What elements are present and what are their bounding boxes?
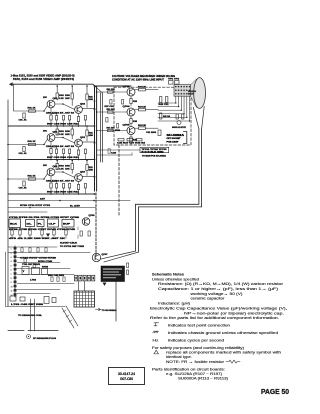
wire G bias chain [71, 126, 73, 129]
wire base feed Q705 [97, 130, 127, 132]
capacitor C31 left of label [158, 130, 161, 136]
svg-text:BLK: BLK [10, 224, 18, 226]
svg-text:R755: R755 [42, 266, 48, 268]
wire mid rail 1 [8, 125, 95, 127]
capacitor at x30 row b [29, 248, 31, 252]
svg-text:R35: R35 [133, 101, 137, 103]
wire bus into Q707 [95, 253, 98, 255]
ladder tie wires [158, 102, 190, 121]
connector label box [140, 147, 169, 152]
svg-text:DL: DL [27, 224, 33, 226]
svg-text:SU-30S2A: SU-30S2A [167, 133, 186, 137]
svg-text:CONDITION AT AC 120V 60Hz LINE: CONDITION AT AC 120V 60Hz LINE INPUT [112, 78, 164, 81]
svg-text:Q703: Q703 [123, 86, 131, 88]
svg-text:Refer to the parts list for ad: Refer to the parts list for additional c… [150, 315, 279, 320]
svg-text:TP1 TP2: TP1 TP2 [168, 79, 179, 81]
resistor at x12 sync row [11, 230, 13, 235]
resistor collector Q703 [139, 88, 146, 91]
wire left border second [5, 252, 7, 306]
resistor R211 output pullup G [86, 130, 88, 136]
svg-text:Q707: Q707 [102, 254, 109, 256]
svg-text:FL: FL [38, 224, 43, 226]
svg-text:10: 10 [11, 286, 13, 288]
wire B interstage [55, 172, 75, 178]
resistor R303 collector load B [56, 164, 58, 170]
wire verticals module row [11, 227, 13, 230]
resistor emitter Q704 [130, 119, 132, 124]
svg-text:3: 3 [11, 257, 12, 259]
wire vertical drop 1 [30, 299, 32, 331]
wire R interstage [55, 104, 75, 110]
transistor Q202 G driver [75, 139, 83, 147]
wire mid rail 2 [8, 159, 95, 161]
arrow to PCB label [96, 308, 101, 310]
wire G collector to rail [56, 126, 58, 129]
capacitor at x22 row b [21, 248, 23, 252]
capacitor spark gap a [176, 114, 178, 119]
svg-text:Q01: Q01 [53, 166, 59, 168]
resistor R59 box [52, 298, 56, 303]
transistor Q102 R driver [75, 106, 83, 114]
wire sync rail 1 [8, 200, 130, 202]
wire bottom segment 2 [28, 330, 58, 332]
pin number labels [11, 249, 13, 297]
resistor at x66 sync row [65, 230, 67, 235]
safety triangle symbol [154, 350, 159, 354]
resistor R203 collector load G [56, 129, 58, 135]
wire R output to bus [82, 108, 94, 110]
svg-text:C01 .01: C01 .01 [19, 120, 28, 122]
wire anode lead inner [139, 129, 202, 207]
wire B bias chain [71, 161, 73, 164]
wire dashed stub down [118, 145, 120, 215]
capacitor C27 bottom row [136, 139, 142, 141]
svg-text:CLP: CLP [49, 224, 57, 226]
dark module white text [103, 269, 122, 279]
twisted pair wires [62, 306, 78, 328]
svg-text:C731 R733 DL701 R735 C733 R737: C731 R733 DL701 R735 C733 R737 Q706 [9, 217, 79, 219]
transistor Q707 high voltage reg [92, 253, 100, 261]
svg-text:BUF: BUF [63, 224, 71, 226]
wire B channel bottom rail [8, 193, 95, 195]
svg-text:SU0000A (R113 ~ R9113): SU0000A (R113 ~ R9113) [178, 375, 229, 380]
capacitor C305 peaking B [69, 184, 71, 189]
svg-text:220 47/16 1K .047 10: 220 47/16 1K .047 10 [46, 111, 74, 114]
resistor R101 input series R [29, 110, 36, 112]
svg-text:Q02: Q02 [80, 137, 86, 139]
svg-text:CRT SOCKET: CRT SOCKET [167, 138, 182, 140]
svg-text:3.3K: 3.3K [59, 134, 64, 136]
ground arrow under dark block [103, 283, 107, 286]
module box buffer [62, 220, 74, 228]
svg-text:L703: L703 [30, 280, 36, 282]
resistor R207 emitter G Q01 [50, 149, 52, 154]
svg-text:150: 150 [89, 170, 93, 172]
wire R bias chain [71, 86, 73, 93]
wire dashed bus continuation [95, 193, 97, 255]
CRT socket pin block [174, 85, 191, 97]
resistor at x52 conn area [51, 277, 53, 281]
capacitor C107 extra R [84, 116, 86, 121]
svg-text:90 CRT: 90 CRT [188, 93, 195, 95]
wire base riser G [44, 140, 47, 145]
capacitor C105 peaking R [69, 116, 71, 121]
resistor R47 bottom row [127, 139, 133, 141]
svg-text:R725 C721 R727 C723: R725 C721 R727 C723 [20, 205, 50, 207]
wire into hatched block b [84, 281, 86, 291]
transistor Q703 video out [127, 88, 135, 96]
capacitor C749 right pair b [127, 270, 129, 274]
test point symbol [154, 323, 159, 326]
resistor R209 feedback G [63, 149, 65, 154]
pin ladder wires [176, 96, 190, 121]
wire bus top tie [95, 86, 103, 93]
svg-text:C31 1000: C31 1000 [146, 132, 156, 134]
resistor R103 collector load R [56, 93, 58, 99]
wire B collector to rail [56, 161, 58, 164]
wire top rail [11, 84, 131, 86]
wire bus to label box a [97, 149, 140, 151]
CRT funnel to anode lead [193, 107, 199, 129]
wire conn row 4 [17, 289, 60, 291]
svg-text:R41 C21: R41 C21 [159, 103, 170, 106]
corner bracket [184, 132, 187, 144]
capacitor C203 emitter bypass G [56, 149, 58, 154]
resistor at x20 sync row [19, 230, 21, 235]
svg-text:PCB ASSY: PCB ASSY [167, 141, 180, 144]
wire dark block drop [115, 282, 117, 322]
svg-text:R51 C41 R53: R51 C41 R53 [48, 274, 64, 277]
wire anode lead outer [136, 129, 199, 204]
svg-text:R753 C745: R753 C745 [38, 260, 52, 263]
transistor Q201 G amp [47, 134, 55, 142]
svg-text:PAGE 50: PAGE 50 [261, 387, 289, 396]
capacitor C207 extra G [84, 149, 86, 154]
wire main bus A [94, 86, 96, 191]
svg-text:R33 12K: R33 12K [138, 125, 147, 127]
wire base riser B [44, 174, 47, 179]
transistor Q706 sync [82, 218, 90, 226]
resistor at x54 sync row [53, 230, 55, 235]
svg-text:indicates test point connectio: indicates test point connection [168, 322, 230, 327]
svg-text:6: 6 [11, 270, 12, 272]
wire collector out Q705 [135, 127, 139, 129]
resistor R39 board [117, 124, 119, 129]
wire loop drop inner [138, 207, 140, 252]
svg-text:3.3K: 3.3K [59, 168, 64, 170]
wire base feed Q704 [97, 111, 127, 113]
svg-text:TO SU-30M1A: TO SU-30M1A [102, 309, 118, 312]
svg-text:8: 8 [11, 278, 12, 280]
svg-text:R739 C735 R741 C737 R743 C739: R739 C735 R741 C737 R743 C739 R745 [9, 228, 75, 231]
dark module block [101, 266, 125, 282]
svg-text:indicates cycles per second: indicates cycles per second [168, 337, 224, 342]
svg-text:H.STAT V.BLK: H.STAT V.BLK [60, 242, 78, 245]
svg-text:R07 C03 R09 C05 R11: R07 C03 R09 C05 R11 [47, 191, 80, 193]
capacitor C101 input shunt R [23, 113, 25, 118]
svg-text:3.3K: 3.3K [59, 98, 64, 100]
capacitor C33 board [106, 118, 108, 123]
transistor Q704 video out [127, 108, 135, 116]
resistor emitter Q703 [130, 99, 132, 104]
svg-text:R01 1K: R01 1K [28, 176, 37, 178]
capacitor C205 peaking G [69, 149, 71, 154]
module box filter [37, 220, 44, 227]
resistor row5 part [24, 259, 26, 263]
fusible resistor symbol [226, 360, 240, 363]
wire loop drop outer [135, 204, 137, 251]
resistor at x64 conn area [63, 277, 65, 281]
svg-text:5152, 5154 and 5156 VIDEO AMP: 5152, 5154 and 5156 VIDEO AMP (204/274) [13, 77, 74, 81]
resistor R313 emitter B Q02 [77, 185, 79, 190]
svg-text:11: 11 [11, 291, 13, 293]
ground arrow sync [46, 234, 50, 237]
transistor Q705 video out [127, 127, 135, 135]
connector pin row [75, 275, 95, 281]
svg-text:10K: 10K [65, 98, 70, 100]
svg-text:C25 R47 C27 R49 G2: C25 R47 C27 R49 G2 [117, 142, 145, 145]
wire conn row 6 [17, 262, 60, 264]
transistor Q301 B amp [47, 168, 55, 176]
capacitor at x38 row b [37, 248, 39, 252]
CRT socket pins [175, 86, 190, 95]
svg-text:5: 5 [11, 265, 12, 267]
small parts right of modules [80, 231, 82, 236]
svg-text:2: 2 [11, 253, 12, 255]
svg-text:2SC: 2SC [43, 165, 48, 167]
wire left border vertical [7, 100, 9, 306]
left pin ladder strip connector CN701 [14, 246, 17, 297]
wire row b2 [8, 252, 90, 254]
resistor R113 emitter R Q02 [77, 117, 79, 122]
resistor R305 bias upper B [71, 164, 73, 170]
svg-text:R G B BLK GND: R G B BLK GND [142, 151, 165, 153]
chassis ground symbol [153, 331, 159, 333]
capacitor C35 board [122, 100, 124, 105]
wire conn row 3 [17, 283, 74, 285]
wire bottom block rail [8, 193, 95, 195]
resistor R43 focus divider [160, 113, 162, 119]
wire G output to bus [82, 141, 94, 143]
wire bus C [100, 93, 102, 162]
svg-text:C29: C29 [111, 152, 116, 154]
wire B channel input [8, 178, 44, 180]
svg-text:L701 C45 R57 R59: L701 C45 R57 R59 [11, 303, 43, 306]
svg-text:R01 1K: R01 1K [28, 108, 37, 110]
svg-text:220 47/16 1K .047 10: 220 47/16 1K .047 10 [46, 179, 74, 182]
resistor R311 output pullup B [86, 165, 88, 171]
resistor R105 bias upper R [71, 93, 73, 99]
wire into hatched block a [78, 281, 80, 291]
svg-text:C741 R747 C743 R749: C741 R747 C743 R749 [20, 256, 56, 259]
resistor base series Q705 [108, 129, 114, 131]
wire R channel input L-run [14, 84, 45, 111]
svg-text:T: T [23, 271, 26, 273]
svg-text:A51ABx90: A51ABx90 [188, 90, 196, 93]
svg-text:2P DEGAUSS PLUG: 2P DEGAUSS PLUG [33, 337, 57, 340]
part number box [109, 368, 145, 385]
resistor at x30 sync row [29, 230, 31, 235]
module box clamp [48, 219, 59, 227]
capacitor at x46 row b [45, 248, 47, 252]
svg-text:Q705: Q705 [123, 125, 131, 127]
svg-text:R35: R35 [133, 121, 137, 123]
resistor collector Q705 [139, 127, 146, 129]
junction dots on buses [94, 85, 96, 87]
resistor R107 emitter R Q01 [50, 115, 52, 120]
transformer T701 box [22, 267, 29, 275]
wire loop diagonal to chassis a [101, 251, 136, 259]
wire collector out Q704 [135, 109, 139, 111]
CRT socket PCB dashed outline SU-30S2A [114, 87, 191, 145]
svg-text:Q02: Q02 [80, 103, 86, 105]
svg-text:Q706: Q706 [89, 215, 96, 217]
wire bus to label box b [97, 154, 132, 156]
transistor Q302 B driver [75, 174, 83, 182]
svg-text:T701 FBT DRIVE: T701 FBT DRIVE [22, 264, 41, 266]
resistor R109 feedback R [63, 116, 65, 121]
svg-text:7: 7 [11, 274, 12, 276]
resistor R57 box [44, 297, 49, 304]
wire vertical drop 2 [34, 299, 36, 331]
box part b [32, 268, 40, 275]
capacitor C21 peaking out [160, 97, 162, 103]
capacitor C103 emitter bypass R [56, 116, 58, 121]
resistor R201 input series G [29, 143, 36, 145]
svg-text:C01 .01: C01 .01 [19, 153, 28, 155]
capacitor C25 bottom row [118, 139, 124, 141]
box part c [42, 269, 48, 275]
svg-text:R01 1K: R01 1K [28, 141, 37, 143]
hatched connector block [74, 291, 95, 307]
capacitor C301 input shunt B [23, 181, 25, 186]
svg-text:R31 100: R31 100 [107, 109, 115, 111]
wire bottom rail [6, 306, 66, 308]
svg-text:SG01 H.STAT: SG01 H.STAT [172, 126, 187, 129]
resistor emitter Q705 [130, 137, 132, 142]
wire R collector to rail [56, 86, 58, 93]
svg-text:R33 12K: R33 12K [138, 107, 147, 109]
resistor R37 board [110, 100, 112, 105]
resistor R309 feedback B [63, 184, 65, 189]
svg-text:1-Max 5151, 5153 and 5155 VIDE: 1-Max 5151, 5153 and 5155 VIDEO AMP (201… [11, 73, 75, 77]
wire loop diagonal to chassis b [104, 252, 139, 262]
svg-text:R33 12K: R33 12K [138, 87, 147, 89]
svg-text:Q01: Q01 [53, 131, 59, 133]
capacitor C45 box [20, 297, 25, 301]
svg-text:150: 150 [89, 135, 93, 137]
wire R channel bottom rail [8, 125, 95, 127]
svg-text:R31 100: R31 100 [107, 89, 115, 91]
wire base riser R [44, 106, 47, 111]
svg-text:150: 150 [89, 99, 93, 101]
svg-text:TO DY701 DEF YOKE: TO DY701 DEF YOKE [60, 246, 85, 248]
svg-text:4: 4 [11, 260, 12, 263]
resistor R301 input series B [29, 178, 36, 180]
wire conn row 2 [17, 274, 74, 276]
node VIDEO input arrow [9, 82, 13, 86]
svg-text:2SC: 2SC [43, 97, 48, 99]
svg-text:R07 C03 R09 C05 R11: R07 C03 R09 C05 R11 [47, 123, 80, 125]
svg-text:R31 100: R31 100 [107, 127, 115, 129]
resistor R41 [166, 97, 168, 103]
wire conn row 1 [17, 268, 70, 270]
transistor Q101 R amp [47, 100, 55, 108]
resistor collector Q704 [139, 108, 146, 111]
CRT bell ellipse [194, 78, 206, 109]
capacitor C201 input shunt G [23, 147, 25, 152]
svg-text:30-4147-24: 30-4147-24 [118, 372, 135, 376]
wire collector out Q703 [135, 89, 139, 91]
capacitor C29 link [108, 149, 110, 153]
svg-text:1: 1 [11, 249, 12, 251]
inductor L701 box [10, 296, 16, 301]
svg-text:TO MAIN PCB SU-30M2A: TO MAIN PCB SU-30M2A [142, 155, 167, 158]
plug circle P701 [27, 335, 31, 339]
CRT neck gray flare [191, 79, 197, 108]
resistor base series Q703 [108, 91, 114, 93]
wire G channel input [8, 144, 44, 146]
wire sync rail 2 [8, 207, 96, 209]
wire G interstage [55, 138, 75, 144]
svg-text:R39: R39 [115, 130, 120, 132]
capacitor C307 extra B [84, 184, 86, 189]
svg-text:10K: 10K [65, 134, 70, 136]
wire B output to bus [82, 176, 94, 178]
wire G channel bottom rail [8, 159, 95, 161]
test point boxes near socket [169, 81, 174, 85]
resistor row6 part [33, 264, 35, 268]
svg-text:NOTE: FR → fusible resistor: NOTE: FR → fusible resistor [166, 359, 225, 364]
wire base feed Q703 [97, 91, 127, 93]
resistor R205 bias upper G [71, 129, 73, 135]
wire row b1 [8, 246, 57, 248]
svg-text:9: 9 [11, 282, 12, 284]
capacitor C303 emitter bypass B [56, 184, 58, 189]
resistor at x58 conn area [57, 277, 59, 281]
resistor R111 output pullup R [86, 94, 88, 100]
wire bus D [102, 93, 104, 162]
svg-text:Q704: Q704 [123, 105, 131, 108]
svg-text:indicates chassis ground unles: indicates chassis ground unless otherwis… [168, 330, 278, 335]
module box delay line [26, 220, 35, 227]
resistor at x42 sync row [41, 230, 43, 235]
svg-text:10K: 10K [65, 168, 70, 170]
capacitor C747 right pair a [127, 263, 129, 267]
svg-text:C01 .01: C01 .01 [19, 188, 28, 190]
svg-text:Q02: Q02 [80, 171, 86, 173]
svg-text:Hz: Hz [153, 337, 159, 342]
resistor R307 emitter B Q01 [50, 183, 52, 188]
svg-text:ceramic capacitor: ceramic capacitor [191, 296, 226, 301]
svg-text:G07-C80: G07-C80 [120, 377, 133, 381]
svg-text:R07 C03 R09 C05 R11: R07 C03 R09 C05 R11 [47, 157, 80, 159]
spark gap SG01 [177, 121, 181, 125]
svg-text:220 47/16 1K .047 10: 220 47/16 1K .047 10 [46, 145, 74, 148]
wire sync rail 3 [8, 211, 47, 213]
wire main bus B [96, 86, 98, 191]
svg-text:470 .01 2.2K 100 33K .047 1K: 470 .01 2.2K 100 33K .047 1K [9, 237, 66, 240]
svg-text:2SC: 2SC [43, 130, 48, 132]
svg-text:B+ 115V: B+ 115V [70, 206, 81, 208]
wire bottom segment 1 [8, 330, 24, 332]
capacitor spark gap b [182, 114, 184, 119]
wire conn row 7 [17, 293, 50, 295]
wire conn row 5 [17, 257, 55, 259]
resistor R213 emitter G Q02 [77, 150, 79, 155]
svg-text:R37 C33: R37 C33 [105, 106, 114, 108]
resistor base series Q704 [108, 111, 114, 113]
